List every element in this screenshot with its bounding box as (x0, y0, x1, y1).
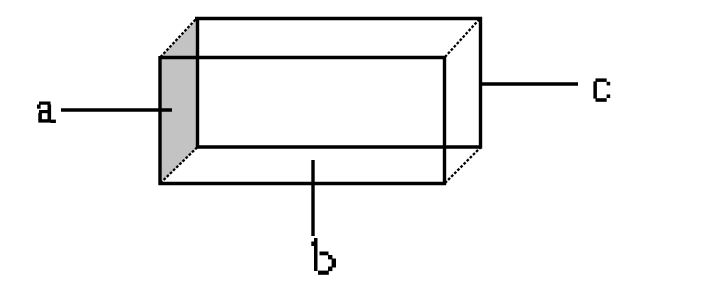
leader line c (480, 82, 578, 85)
top-right receding edge (445, 19, 480, 58)
bottom-left receding edge (161, 148, 198, 184)
label b (311, 238, 336, 275)
front bottom edge (159, 182, 447, 185)
front right edge (443, 56, 446, 185)
back top edge (195, 17, 482, 20)
bottom-right receding edge (445, 148, 480, 183)
front top edge (160, 56, 446, 59)
back left edge (196, 17, 199, 149)
leader line b (311, 160, 314, 236)
label c (593, 78, 610, 101)
front left edge (158, 56, 161, 185)
back bottom edge (196, 145, 482, 148)
left face (shaded) (160, 19, 198, 184)
leader line a (61, 108, 172, 111)
label a (37, 102, 56, 124)
top-left receding edge (161, 19, 197, 58)
back right edge (479, 17, 482, 149)
